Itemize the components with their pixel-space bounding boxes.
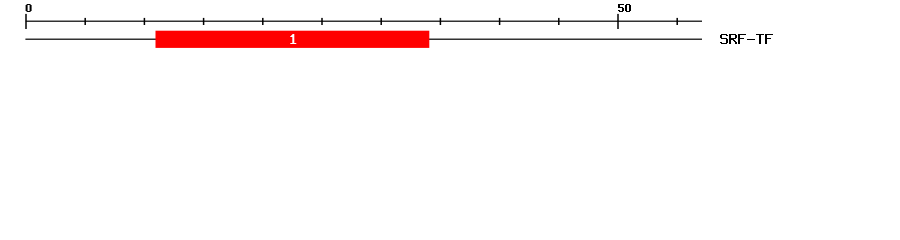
- domain name letter S: [720, 34, 728, 44]
- minor tick 30: [380, 18, 382, 25]
- minor tick 5: [84, 18, 86, 25]
- minor tick 40: [499, 18, 501, 25]
- minor tick 20: [262, 18, 264, 25]
- minor tick 10: [144, 18, 146, 25]
- tick label 50 digit 0: [625, 4, 631, 12]
- domain box (red): [156, 31, 430, 48]
- tick label 0: [26, 4, 32, 12]
- ruler line: [25, 21, 702, 22]
- minor tick 35: [440, 18, 442, 25]
- major tick 50: [617, 14, 619, 29]
- domain name letter F (2nd): [765, 34, 773, 44]
- domain number 1: [290, 34, 296, 44]
- tick label 50: [618, 4, 624, 12]
- domain name dash: [747, 39, 755, 40]
- minor tick 25: [321, 18, 323, 25]
- major tick 0: [25, 14, 27, 29]
- sequence line: [25, 39, 702, 40]
- domain name letter F (1st): [738, 34, 746, 44]
- minor tick 55: [676, 18, 678, 25]
- background: [0, 0, 900, 58]
- domain name letter T: [756, 34, 764, 44]
- minor tick 45: [558, 18, 560, 25]
- domain name letter R: [729, 34, 737, 44]
- minor tick 15: [203, 18, 205, 25]
